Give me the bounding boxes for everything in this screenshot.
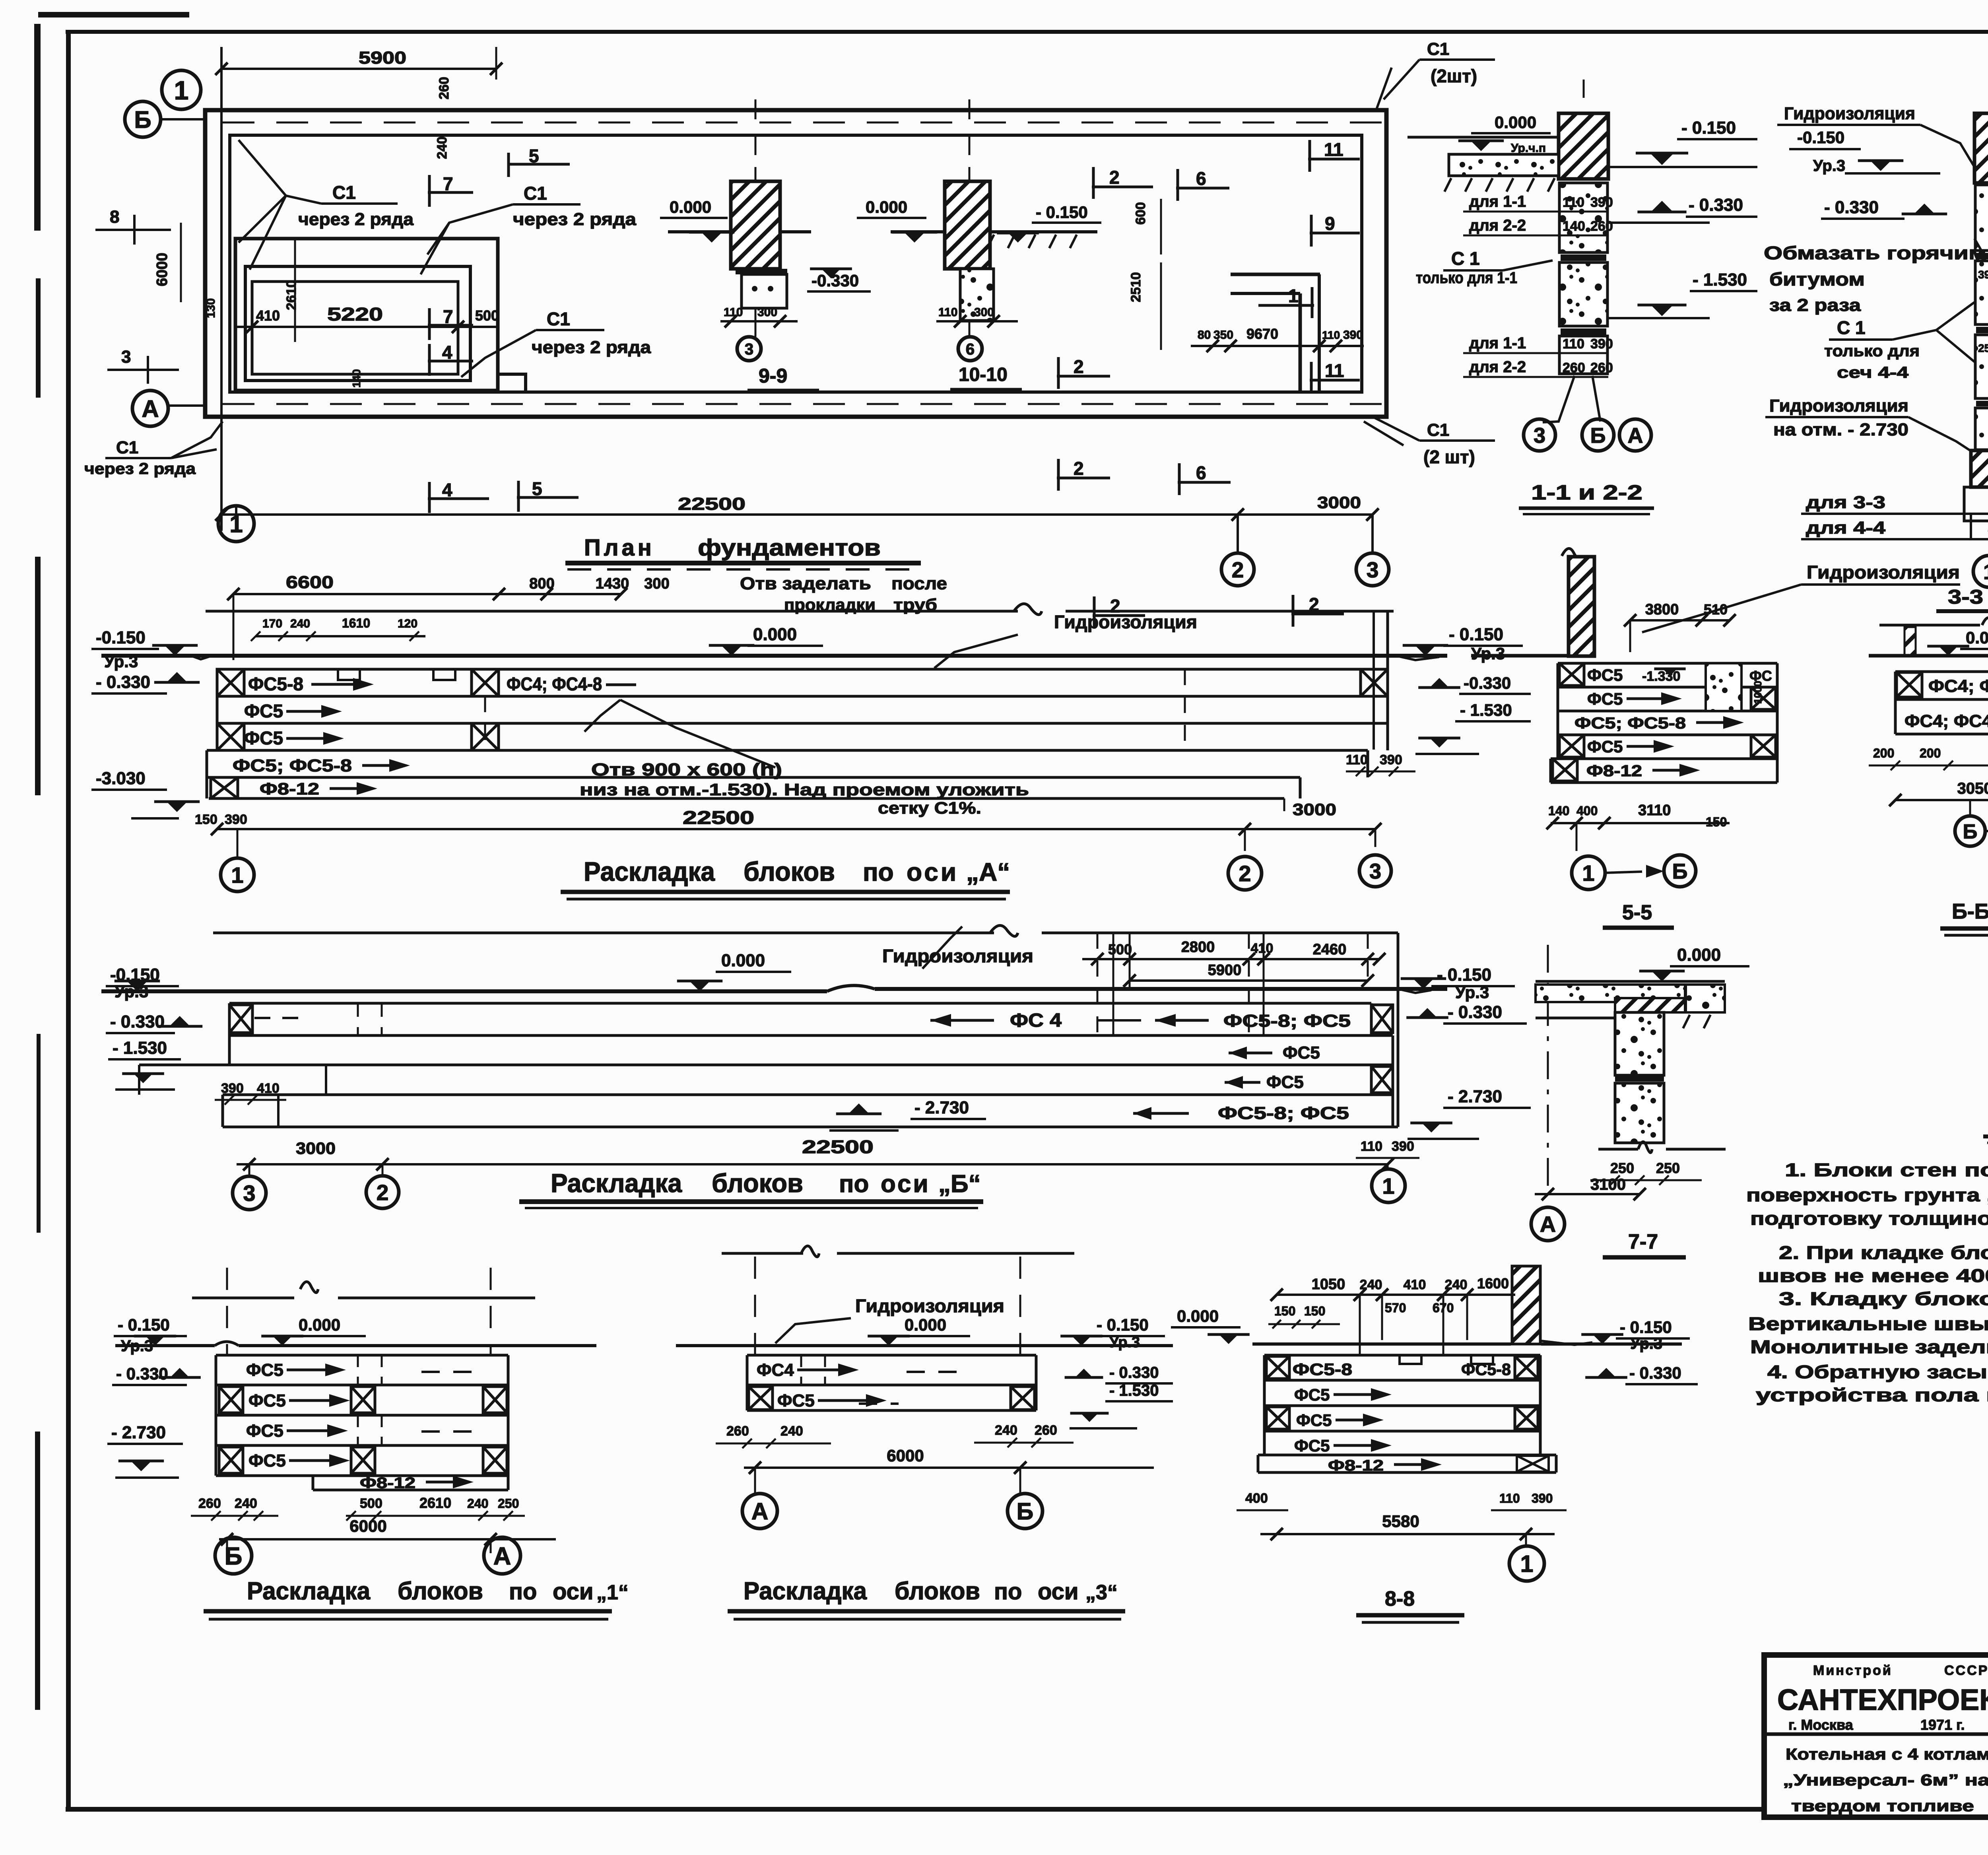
svg-text:Раскладка: Раскладка [247,1577,370,1605]
svg-text:500: 500 [475,307,499,324]
svg-text:Ф8-12: Ф8-12 [1328,1457,1384,1474]
svg-text:только для 1-1: только для 1-1 [1416,269,1517,287]
svg-text:Б: Б [1017,1498,1033,1525]
svg-text:С1: С1 [332,182,356,203]
svg-text:-0.330: -0.330 [1464,674,1511,692]
svg-text:через 2 ряда: через 2 ряда [532,338,651,357]
svg-text:3: 3 [243,1181,255,1206]
svg-text:Раскладка: Раскладка [744,1577,867,1605]
svg-text:ФС5: ФС5 [246,1360,283,1380]
svg-text:- 2.730: - 2.730 [1448,1087,1502,1106]
svg-text:140: 140 [350,369,363,388]
svg-text:1600: 1600 [1477,1275,1509,1292]
svg-text:„А“: „А“ [966,858,1010,886]
svg-text:Б: Б [1672,859,1688,883]
svg-text:по: по [994,1579,1022,1604]
svg-text:240: 240 [435,136,450,159]
svg-text:- 1.530: - 1.530 [1460,701,1512,719]
svg-text:9670: 9670 [1246,326,1278,342]
svg-text:Б: Б [134,107,151,133]
svg-text:7-7: 7-7 [1628,1230,1658,1253]
svg-text:для 4-4: для 4-4 [1806,518,1886,538]
svg-text:-3.030: -3.030 [96,769,146,788]
svg-text:1: 1 [1288,286,1299,306]
svg-text:390: 390 [1978,268,1988,281]
svg-text:110: 110 [1563,195,1584,210]
svg-text:А: А [751,1498,769,1525]
svg-text:Б: Б [1590,423,1606,447]
svg-text:за 2 раза: за 2 раза [1769,295,1861,315]
svg-text:Монолитные заделки из бет: Монолитные заделки из бетона М 100. [1750,1336,1988,1357]
svg-text:3: 3 [745,340,753,358]
svg-text:- 2.730: - 2.730 [914,1098,969,1117]
svg-text:260: 260 [726,1424,749,1439]
svg-text:11: 11 [1325,360,1344,381]
svg-text:- 0.330: - 0.330 [1109,1364,1159,1381]
svg-text:2: 2 [377,1180,389,1205]
svg-text:5900: 5900 [1208,962,1242,979]
svg-text:6: 6 [966,340,975,358]
svg-text:- 0.330: - 0.330 [1629,1364,1681,1382]
svg-text:- 0.150: - 0.150 [1681,118,1736,138]
svg-text:1: 1 [1582,860,1594,886]
svg-text:1610: 1610 [342,616,370,630]
svg-text:390: 390 [221,1081,244,1096]
svg-text:С 1: С 1 [1837,317,1866,338]
svg-text:ФС5-8: ФС5-8 [1293,1360,1352,1379]
svg-text:С1: С1 [1427,420,1449,440]
svg-text:110: 110 [1361,1139,1382,1154]
svg-text:Ур.3: Ур.3 [1630,1335,1662,1352]
svg-text:поверхность грунта , основа: поверхность грунта , основания или песча… [1746,1185,1988,1205]
svg-text:390: 390 [1590,336,1613,352]
svg-text:ФС5: ФС5 [1266,1072,1304,1092]
svg-text:блоков: блоков [744,857,835,887]
svg-text:3800: 3800 [1645,601,1679,618]
svg-text:- 0.330: - 0.330 [96,672,150,692]
svg-text:Б-Б: Б-Б [1952,899,1988,923]
svg-text:110: 110 [1499,1491,1520,1505]
svg-text:4: 4 [442,480,452,500]
svg-text:6000: 6000 [349,1517,386,1535]
svg-text:410: 410 [256,307,280,324]
svg-text:сеч 4-4: сеч 4-4 [1837,364,1909,381]
svg-text:ФС5: ФС5 [248,1451,286,1470]
svg-text:после: после [891,574,947,593]
svg-text:150: 150 [195,812,217,827]
svg-text:0.000: 0.000 [1495,113,1536,132]
svg-text:3100: 3100 [1590,1176,1626,1193]
svg-text:240: 240 [290,617,310,630]
svg-text:„Универсал- 6м” на: „Универсал- 6м” на [1783,1771,1988,1789]
svg-text:200: 200 [1920,746,1941,760]
svg-text:390: 390 [1590,195,1613,210]
svg-text:ФС5; ФС5-8: ФС5; ФС5-8 [1574,715,1686,732]
svg-text:2460: 2460 [1313,941,1347,958]
svg-text:ФС5: ФС5 [777,1391,815,1410]
svg-text:260: 260 [198,1496,221,1511]
svg-text:170: 170 [262,617,282,630]
svg-text:5580: 5580 [1382,1512,1419,1531]
svg-text:Ур.3: Ур.3 [104,652,138,671]
svg-text:240: 240 [780,1424,803,1439]
svg-text:3: 3 [1367,557,1379,582]
svg-text:-0.150: -0.150 [96,628,146,647]
svg-text:260: 260 [437,77,452,99]
svg-text:240: 240 [467,1496,488,1511]
svg-text:Ур.3: Ур.3 [121,1337,153,1355]
svg-text:250: 250 [498,1496,519,1511]
svg-text:250: 250 [1610,1160,1634,1176]
svg-text:Ур.3: Ур.3 [1813,157,1845,175]
svg-text:С1: С1 [116,438,138,457]
svg-text:2: 2 [1232,557,1244,582]
svg-text:9-9: 9-9 [759,365,787,387]
svg-text:„3“: „3“ [1085,1581,1118,1604]
svg-text:2: 2 [1239,861,1251,886]
svg-text:250: 250 [1656,1160,1680,1176]
svg-text:5: 5 [532,478,542,499]
svg-text:Ф8-12: Ф8-12 [1586,762,1642,780]
svg-text:5220: 5220 [327,304,383,324]
svg-text:8: 8 [110,207,119,227]
svg-text:- 1.530: - 1.530 [113,1038,167,1058]
svg-text:1-1 и 2-2: 1-1 и 2-2 [1531,481,1642,504]
svg-text:Б: Б [1963,820,1978,843]
svg-text:140: 140 [1563,219,1585,234]
svg-text:8-8: 8-8 [1385,1587,1415,1610]
svg-text:0.000: 0.000 [721,951,765,970]
svg-text:500: 500 [1108,941,1132,958]
svg-text:только для: только для [1824,342,1920,360]
svg-text:5-5: 5-5 [1622,901,1652,924]
svg-text:блоков: блоков [895,1577,980,1605]
svg-text:ФС5-8; ФС5: ФС5-8; ФС5 [1218,1103,1349,1123]
svg-text:- 1.530: - 1.530 [1693,270,1747,289]
svg-text:оси: оси [907,858,959,886]
svg-text:570: 570 [1385,1301,1406,1315]
svg-text:Гидроизоляция: Гидроизоляция [1769,396,1908,416]
svg-text:прокладки: прокладки [784,595,876,614]
svg-text:6000: 6000 [887,1446,924,1465]
svg-text:сетку С1%.: сетку С1%. [878,798,981,817]
svg-text:А: А [142,396,159,422]
svg-text:С1: С1 [1427,39,1449,59]
svg-text:Минстрой: Минстрой [1813,1663,1893,1678]
svg-text:252: 252 [1978,342,1988,354]
svg-text:0.000: 0.000 [753,625,797,644]
svg-text:390: 390 [1392,1139,1414,1154]
svg-text:2800: 2800 [1181,939,1215,956]
svg-text:(2шт): (2шт) [1431,66,1477,86]
svg-text:500: 500 [360,1496,382,1511]
svg-text:Гидроизоляция: Гидроизоляция [1807,562,1960,583]
svg-text:по: по [863,858,894,886]
svg-text:3. Кладку блоков вести н: 3. Кладку блоков вести на цементном раст… [1779,1288,1988,1309]
svg-text:7: 7 [443,173,453,194]
svg-text:2: 2 [1074,356,1084,377]
svg-text:ФС5: ФС5 [1283,1043,1320,1062]
svg-text:390: 390 [1343,328,1363,342]
svg-text:130: 130 [204,298,217,318]
svg-text:Б: Б [225,1542,243,1570]
svg-text:ФС5; ФС5-8: ФС5; ФС5-8 [233,756,352,775]
svg-text:на отм. - 2.730: на отм. - 2.730 [1773,420,1908,439]
svg-text:-0.150: -0.150 [1797,128,1844,147]
svg-text:Вертикальные швы тщательно: Вертикальные швы тщательно заполнить рас… [1748,1313,1988,1334]
svg-text:110: 110 [1322,329,1340,341]
svg-text:4. Обратную засыпку пазух: 4. Обратную засыпку пазух котлована прои… [1767,1362,1988,1382]
svg-text:80: 80 [1198,328,1211,342]
svg-text:С 1: С 1 [1451,248,1480,269]
svg-text:3-3 и 4-4: 3-3 и 4-4 [1948,586,1988,608]
svg-text:200: 200 [1873,746,1894,760]
svg-text:труб: труб [893,595,937,614]
svg-text:400: 400 [1245,1491,1268,1506]
svg-text:ФС5-8: ФС5-8 [1461,1360,1511,1379]
svg-text:ФС5: ФС5 [1294,1436,1330,1455]
svg-text:260: 260 [1590,360,1613,375]
svg-text:ФС5: ФС5 [246,1421,283,1441]
svg-text:1: 1 [1520,1551,1534,1577]
svg-text:ФС5: ФС5 [1587,666,1623,684]
svg-text:ФС5: ФС5 [1296,1411,1332,1430]
svg-text:1: 1 [231,862,243,888]
svg-text:ФС5-8; ФС5: ФС5-8; ФС5 [1223,1011,1351,1031]
svg-text:подготовку толщиной 100 м: подготовку толщиной 100 мм. [1750,1208,1988,1229]
svg-text:6: 6 [1196,462,1206,483]
svg-text:Ур.ч.п: Ур.ч.п [1511,142,1546,155]
svg-text:2: 2 [1109,167,1120,188]
svg-text:410: 410 [1404,1277,1426,1292]
svg-text:Гидроизоляция: Гидроизоляция [855,1296,1004,1316]
svg-text:Ф8-12: Ф8-12 [360,1475,415,1492]
svg-text:3000: 3000 [1293,800,1336,819]
svg-text:390: 390 [1380,752,1402,767]
svg-text:22500: 22500 [678,494,745,514]
svg-text:для 3-3: для 3-3 [1806,493,1885,512]
svg-text:- 0.150: - 0.150 [118,1315,170,1334]
svg-text:ФС5: ФС5 [244,701,283,721]
svg-text:- 0.330: - 0.330 [1689,195,1743,215]
svg-text:Отв заделать: Отв заделать [740,574,871,593]
svg-text:2610: 2610 [419,1495,451,1511]
svg-text:10-10: 10-10 [959,364,1008,385]
svg-text:устройства пола и перек: устройства пола и перекрытия подвала. [1756,1385,1988,1405]
svg-text:через 2 ряда: через 2 ряда [84,460,196,478]
svg-text:- 0.150: - 0.150 [1097,1315,1149,1334]
svg-text:Ур.3: Ур.3 [1109,1334,1140,1351]
svg-text:оси: оси [881,1170,930,1198]
svg-text:260: 260 [1590,219,1613,234]
svg-text:для 1-1: для 1-1 [1469,193,1526,210]
svg-text:швов не менее 400 мм.: швов не менее 400 мм. [1758,1265,1988,1286]
svg-text:140: 140 [1548,804,1569,818]
svg-text:СССР: СССР [1944,1663,1988,1678]
svg-text:110: 110 [938,306,957,319]
svg-text:2610: 2610 [284,280,299,310]
svg-text:400: 400 [1576,804,1598,818]
svg-text:Гидроизоляция: Гидроизоляция [882,946,1033,966]
svg-text:САНТЕХПРОЕКТ: САНТЕХПРОЕКТ [1777,1683,1988,1716]
svg-text:оси: оси [1038,1579,1079,1604]
svg-text:410: 410 [257,1081,280,1096]
svg-text:120: 120 [398,617,417,630]
svg-text:800: 800 [529,575,554,592]
svg-text:510: 510 [1704,601,1728,618]
svg-text:для 2-2: для 2-2 [1469,358,1526,376]
svg-text:- 0.330: - 0.330 [1824,198,1879,217]
svg-text:Гидроизоляция: Гидроизоляция [1784,104,1915,123]
svg-text:для 2-2: для 2-2 [1469,217,1526,234]
svg-text:3110: 3110 [1638,802,1671,819]
svg-text:„1“: „1“ [596,1581,629,1604]
svg-text:1: 1 [1983,560,1988,584]
svg-text:блоков: блоков [398,1577,483,1605]
svg-text:С1: С1 [547,309,570,329]
svg-text:- 0.150: - 0.150 [1437,965,1491,985]
svg-text:3: 3 [1369,859,1381,883]
svg-text:3: 3 [121,347,131,367]
svg-text:- 0.330: - 0.330 [116,1364,168,1383]
svg-text:2510: 2510 [1128,272,1143,302]
svg-text:5900: 5900 [359,48,406,68]
svg-text:110: 110 [1563,336,1584,352]
svg-text:350: 350 [1213,328,1233,342]
svg-text:А: А [493,1542,511,1570]
svg-text:3000: 3000 [296,1139,336,1158]
svg-text:ФС4; ФС4-8: ФС4; ФС4-8 [1905,711,1988,731]
svg-text:3000: 3000 [1317,493,1361,512]
svg-text:6: 6 [1196,168,1206,189]
svg-text:300: 300 [974,306,994,319]
svg-text:9: 9 [1325,213,1335,234]
svg-text:390: 390 [1532,1491,1553,1505]
svg-text:для 1-1: для 1-1 [1469,334,1526,352]
svg-text:низ на отм.-1.530). Над проемо: низ на отм.-1.530). Над проемом уложить [580,780,1029,799]
svg-text:ФС4; ФС4-8: ФС4; ФС4-8 [507,674,602,694]
svg-text:- 0.150: - 0.150 [1620,1318,1672,1336]
svg-text:2. При кладке блоков обе: 2. При кладке блоков обеспечить перевязк… [1779,1242,1988,1263]
svg-text:блоков: блоков [712,1168,803,1198]
svg-text:Котельная с 4 котлами: Котельная с 4 котлами [1786,1746,1988,1763]
svg-text:4: 4 [442,342,452,363]
svg-text:Ур.3: Ур.3 [1471,644,1505,663]
svg-text:1971 г.: 1971 г. [1920,1717,1965,1733]
svg-text:3050: 3050 [1957,780,1988,797]
svg-text:Ур.3: Ур.3 [1455,983,1489,1002]
svg-text:ФС4; ФС4-8: ФС4; ФС4-8 [1928,676,1988,696]
svg-text:ФС5-8: ФС5-8 [248,674,303,694]
svg-text:240: 240 [235,1496,257,1511]
svg-text:- 0.150: - 0.150 [1449,625,1503,644]
svg-text:0.000: 0.000 [670,198,711,216]
svg-text:Гидроизоляция: Гидроизоляция [1054,612,1197,632]
svg-text:через 2 ряда: через 2 ряда [298,210,414,229]
svg-text:ФС5: ФС5 [248,1391,286,1410]
svg-text:по: по [509,1579,537,1604]
svg-text:Раскладка: Раскладка [551,1168,682,1198]
svg-text:7: 7 [443,306,453,327]
svg-text:0.000: 0.000 [905,1315,946,1334]
svg-text:Обмазать горячим: Обмазать горячим [1764,243,1986,263]
svg-text:3: 3 [1534,423,1545,447]
svg-text:1050: 1050 [1312,1276,1345,1293]
svg-text:0.000: 0.000 [1677,945,1721,965]
svg-text:ФС 4: ФС 4 [1010,1010,1062,1031]
svg-text:- 2.730: - 2.730 [111,1423,166,1442]
svg-text:- 0.330: - 0.330 [1448,1002,1502,1022]
svg-text:твердом топливе: твердом топливе [1791,1797,1974,1815]
svg-text:1430: 1430 [596,575,629,592]
svg-text:6000: 6000 [154,253,171,286]
svg-text:План: План [584,535,655,561]
svg-text:600: 600 [1133,202,1148,225]
svg-text:1000: 1000 [1752,681,1764,704]
svg-text:ФС5: ФС5 [1587,690,1623,708]
svg-text:260: 260 [1563,360,1585,375]
svg-text:ФС5: ФС5 [1587,737,1623,756]
svg-text:1: 1 [1382,1173,1394,1198]
svg-text:11: 11 [1324,139,1343,160]
svg-text:300: 300 [644,575,669,592]
svg-text:г. Москва: г. Москва [1788,1717,1854,1733]
svg-text:300: 300 [757,306,777,319]
svg-text:- 0.330: - 0.330 [110,1012,165,1031]
svg-text:ФС5: ФС5 [1294,1385,1330,1404]
svg-text:2: 2 [1074,458,1084,479]
svg-text:240: 240 [995,1423,1017,1438]
svg-text:1. Блоки стен подвала ук: 1. Блоки стен подвала укладываются на вы… [1785,1160,1988,1180]
svg-text:22500: 22500 [802,1136,874,1157]
svg-text:битумом: битумом [1769,269,1865,289]
svg-text:А: А [1540,1212,1556,1237]
svg-text:150: 150 [1304,1304,1325,1318]
svg-text:С1: С1 [524,183,547,204]
svg-text:А: А [1628,423,1643,447]
svg-text:- 1.530: - 1.530 [1109,1382,1159,1399]
svg-text:0.000: 0.000 [1966,628,1988,647]
svg-text:6600: 6600 [286,573,334,592]
svg-text:22500: 22500 [683,807,754,828]
svg-text:Отв 900 х 600 (h): Отв 900 х 600 (h) [591,760,782,779]
svg-text:через 2 ряда: через 2 ряда [513,210,637,229]
svg-text:„Б“: „Б“ [938,1170,981,1198]
svg-text:по: по [839,1170,869,1198]
svg-text:0.000: 0.000 [299,1315,340,1334]
svg-text:Ф8-12: Ф8-12 [260,779,319,798]
svg-text:260: 260 [1035,1423,1057,1438]
svg-text:фундаментов: фундаментов [698,535,881,561]
svg-text:0.000: 0.000 [1177,1307,1219,1325]
svg-text:- 0.150: - 0.150 [1036,203,1088,221]
svg-text:ФС5: ФС5 [244,728,283,748]
svg-text:150: 150 [1274,1304,1295,1318]
svg-text:0.000: 0.000 [866,198,907,216]
svg-text:390: 390 [225,812,247,827]
svg-text:(2 шт): (2 шт) [1423,447,1475,467]
svg-text:ФС4: ФС4 [757,1360,794,1380]
svg-text:оси: оси [553,1579,594,1604]
svg-text:1: 1 [174,76,189,105]
svg-text:Раскладка: Раскладка [584,857,715,887]
svg-text:110: 110 [1346,752,1368,767]
